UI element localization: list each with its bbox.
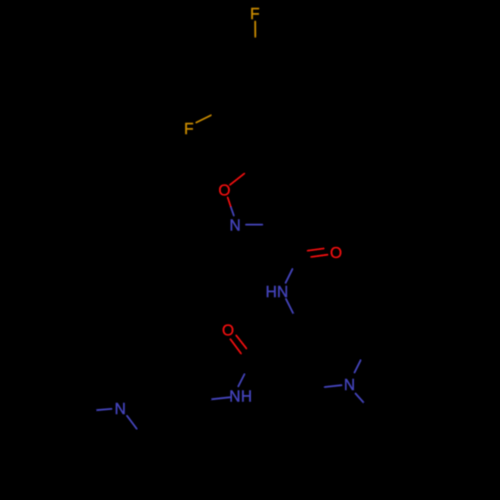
bond N-r to C6r nitrogen half [325,385,342,387]
amide1 C=O double bond dark halves [298,256,312,258]
bond C4ph-F1 fluorine half [254,22,256,37]
svg-text:F: F [184,121,193,138]
amide2 C=O double bond dark halves [246,348,252,361]
svg-text:N: N [229,389,240,406]
amide1 C=O double bond oxygen halves [312,255,328,257]
bond O1-N2 oxygen half [228,198,231,207]
bond C2ph-F2 dark half [211,107,224,116]
svg-text:O: O [218,183,230,200]
svg-text:H: H [266,284,277,301]
amide2 C=O double bond oxygen halves [236,335,246,348]
bond C-a2 to N-a2 nitrogen half [238,375,244,387]
bond N-a2 to C4l dark half [197,399,211,402]
bond O1-N2 nitrogen half [231,208,234,216]
svg-text:N: N [229,218,240,235]
svg-text:O: O [222,323,234,340]
bond N-r to methyl nitrogen half [356,394,365,404]
bond C3i to amide carbonyl C-a1 [275,225,298,258]
bond C1ph-C5i (phenyl to isoxazole) [254,125,255,166]
svg-text:N: N [115,401,126,418]
bond N-l to C6l nitrogen half [127,416,137,429]
bond C2ph-F2 fluorine half [196,116,210,123]
bond C-a1 to N-a1 dark half [292,257,298,269]
svg-text:N: N [344,377,355,394]
bond N-a2 to C4l nitrogen half [211,397,230,399]
bond O1-C5i oxygen half [230,174,244,185]
svg-text:H: H [241,389,252,406]
svg-text:N: N [277,284,288,301]
bond C-a2 to N-a2 dark half [244,362,252,375]
bond N-l to methyl nitrogen half [96,409,112,410]
bond C5r to C-a2 [253,360,287,361]
svg-text:F: F [250,6,259,23]
benzene ring (2,4-difluorophenyl) dark carbon bonds [223,51,287,125]
bond C-a1 to N-a1 nitrogen half [286,269,293,283]
isoxazole ring carbon bonds [244,166,286,224]
bond N-a1 to C4r dark half [294,314,301,325]
bond N-l methyl dark half [82,410,96,412]
right piperidine ring dark carbon bonds [286,318,363,390]
bond N-r to C2r nitrogen half [355,361,361,373]
left chain dark carbon bonds [137,402,198,438]
bond C4ph-F1 dark half [254,37,256,52]
svg-text:O: O [330,245,342,262]
bond N-r methyl dark half [364,403,374,413]
bond N2-C3i nitrogen half [246,224,262,226]
bond N-a1 to C4r nitrogen half [286,299,294,314]
